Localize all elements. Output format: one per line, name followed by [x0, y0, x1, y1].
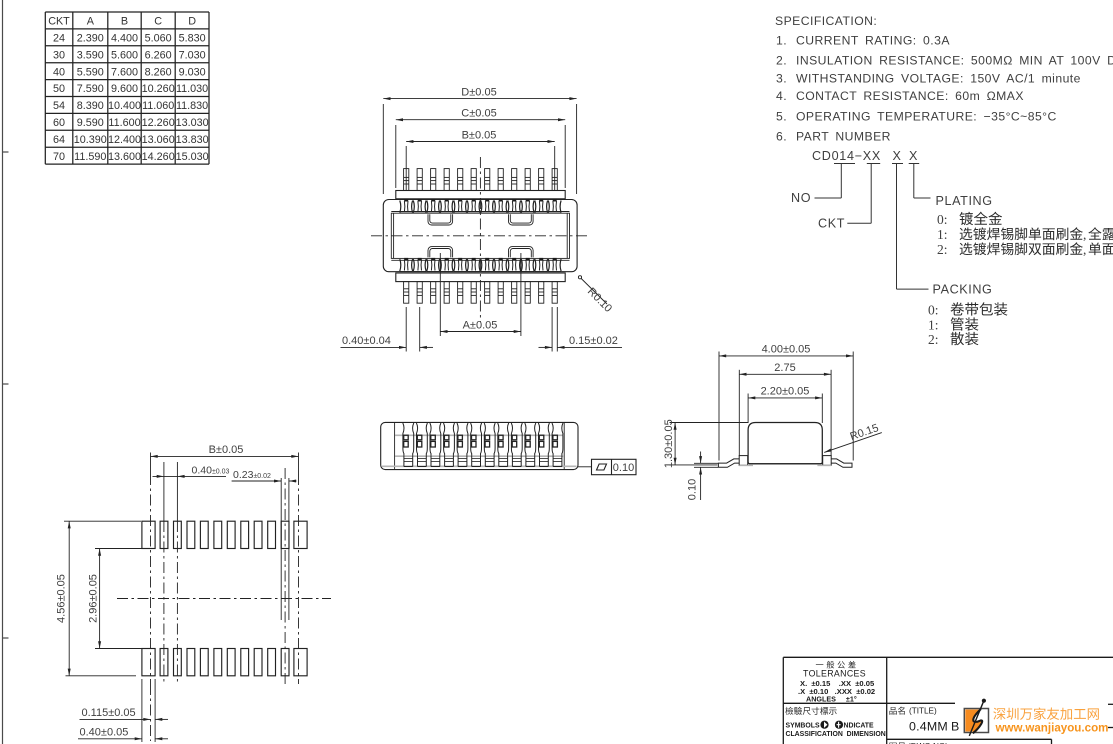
footprint: horizontal centerline: [117, 598, 331, 600]
svg-text:PART NUMBER: PART NUMBER: [796, 129, 891, 143]
svg-text:0:: 0:: [937, 212, 948, 227]
svg-text:12.260: 12.260: [142, 117, 175, 129]
footprint: dimension 0.40±0.03: [153, 475, 227, 477]
title block borders: [783, 657, 1113, 744]
svg-text:4.00±0.05: 4.00±0.05: [762, 344, 811, 356]
svg-text:6.260: 6.260: [145, 49, 172, 61]
svg-text:9.590: 9.590: [77, 117, 104, 129]
end view: left gull-wing lead: [718, 456, 747, 468]
end view: body cross-section: [748, 423, 822, 464]
part number CD014-XX X X: [812, 149, 918, 163]
svg-text:1.: 1.: [776, 33, 787, 47]
svg-text:2.75: 2.75: [774, 362, 795, 374]
logo orange shape: [965, 710, 982, 732]
svg-text:www.wanjiayou.com: www.wanjiayou.com: [995, 721, 1109, 734]
svg-text:0.115±0.05: 0.115±0.05: [82, 707, 136, 719]
svg-text:14.260: 14.260: [142, 151, 175, 163]
side view: flatness feature control frame 0.10: [578, 466, 592, 468]
footprint: dimension 0.115±0.05: [80, 679, 169, 742]
top view: top cap band: [396, 191, 565, 199]
circled symbols: [820, 721, 828, 729]
svg-text:5.590: 5.590: [77, 66, 104, 78]
svg-text:5.830: 5.830: [179, 33, 206, 45]
top view: dimension C±0.05: [396, 120, 565, 188]
top view: upper pin row (12 pins): [404, 169, 558, 191]
svg-text:2.20±0.05: 2.20±0.05: [761, 386, 810, 398]
svg-text:6.: 6.: [776, 129, 787, 143]
logo needle: [969, 701, 984, 736]
logo company name: [993, 707, 1099, 719]
svg-text:1.30±0.05: 1.30±0.05: [663, 419, 675, 468]
svg-text:PACKING: PACKING: [933, 282, 993, 296]
svg-text:0.15±0.02: 0.15±0.02: [569, 335, 618, 347]
svg-text:2.: 2.: [776, 54, 787, 68]
svg-text:13.060: 13.060: [142, 134, 175, 146]
end view: R0.15 leader: [824, 433, 882, 453]
svg-text:(TITLE): (TITLE): [909, 707, 937, 716]
top view: connector body outline: [383, 200, 577, 272]
footprint: bottom pad row: [142, 649, 307, 676]
svg-text:11.830: 11.830: [176, 100, 208, 112]
svg-text:11.030: 11.030: [176, 83, 208, 95]
svg-text:ANGLES ±1°: ANGLES ±1°: [806, 694, 857, 703]
svg-text:1:: 1:: [928, 318, 939, 333]
svg-text:5.060: 5.060: [145, 33, 172, 45]
svg-text:INSULATION RESISTANCE: 500MΩ M: INSULATION RESISTANCE: 500MΩ MIN AT 100V…: [796, 54, 1113, 68]
drawing frame left border: [3, 0, 9, 744]
part number callout tree: [815, 164, 931, 290]
logo S stroke: [973, 709, 982, 733]
end view: dimension 1.30±0.05: [670, 423, 749, 465]
svg-text:4.400: 4.400: [111, 33, 138, 45]
svg-text:R0.10: R0.10: [585, 286, 614, 315]
svg-text:PLATING: PLATING: [936, 194, 993, 208]
svg-text:50: 50: [53, 83, 65, 95]
svg-text:X: X: [893, 149, 902, 163]
labels NO / CKT / PLATING / PACKING: [791, 191, 993, 296]
top view: upper contact row: [400, 199, 561, 213]
svg-text:9.600: 9.600: [111, 83, 138, 95]
svg-text:13.600: 13.600: [108, 151, 141, 163]
svg-text:TOLERANCES: TOLERANCES: [803, 669, 866, 679]
top view: R0.10 leader: [578, 276, 581, 279]
svg-text:1:: 1:: [937, 227, 948, 242]
logo square: [964, 709, 988, 733]
svg-text:54: 54: [53, 100, 65, 112]
svg-text:3.: 3.: [776, 72, 787, 86]
top view: dimension A±0.05: [440, 253, 521, 336]
top view: keying slots: [428, 214, 533, 257]
footprint: dimension 0.23±0.02: [232, 478, 297, 620]
svg-text:5.600: 5.600: [111, 49, 138, 61]
svg-text:11.600: 11.600: [108, 117, 140, 129]
svg-text:0.40±0.04: 0.40±0.04: [342, 335, 391, 347]
top view: dimension D±0.05: [383, 99, 576, 194]
svg-text:0.4MM: 0.4MM: [909, 720, 948, 734]
svg-text:24: 24: [53, 33, 65, 45]
svg-text:0.10: 0.10: [613, 462, 634, 474]
svg-text:SPECIFICATION:: SPECIFICATION:: [775, 14, 877, 28]
product name row: [889, 707, 904, 715]
svg-text:8.260: 8.260: [145, 66, 172, 78]
svg-text:2.390: 2.390: [77, 33, 104, 45]
svg-text:3.590: 3.590: [77, 49, 104, 61]
footprint: dimension B±0.05: [151, 455, 299, 457]
side view: 12 terminal units: [403, 423, 563, 467]
svg-text:WITHSTANDING VOLTAGE: 150V AC/: WITHSTANDING VOLTAGE: 150V AC/1 minute: [796, 72, 1081, 86]
footprint: vertical centerlines: [151, 453, 299, 742]
footprint: dimension 4.56±0.05: [64, 521, 141, 676]
end view: dimension 4.00±0.05: [719, 352, 853, 461]
svg-text:0.40±0.05: 0.40±0.05: [80, 727, 129, 739]
footprint: top pad row: [142, 521, 307, 548]
svg-text:4.: 4.: [776, 89, 787, 103]
svg-text:11.060: 11.060: [142, 100, 174, 112]
svg-text:64: 64: [53, 134, 65, 146]
svg-text:9.030: 9.030: [179, 66, 206, 78]
svg-text:CD014−XX: CD014−XX: [812, 149, 881, 163]
svg-text:B: B: [121, 16, 128, 28]
svg-text:8.390: 8.390: [77, 100, 104, 112]
svg-text:0:: 0:: [928, 303, 939, 318]
specification heading and items: [775, 14, 1113, 143]
svg-text:B: B: [951, 720, 959, 734]
svg-text:CLASSIFICATION DIMENSION: CLASSIFICATION DIMENSION: [786, 731, 886, 738]
svg-text:A: A: [87, 16, 95, 28]
top view: dimension 0.15±0.02: [539, 307, 623, 352]
top view: lower pin row (12 pins): [404, 282, 558, 304]
svg-text:C: C: [154, 16, 162, 28]
svg-text:2.96±0.05: 2.96±0.05: [87, 574, 99, 623]
svg-text:2:: 2:: [937, 242, 948, 257]
svg-text:10.260: 10.260: [142, 83, 175, 95]
svg-text:7.030: 7.030: [179, 49, 206, 61]
svg-text:,: ,: [1083, 242, 1086, 257]
svg-text:7.590: 7.590: [77, 83, 104, 95]
tolerances text: [816, 661, 856, 669]
CKT dimension table: [45, 12, 209, 164]
svg-text:SYMBOLS: SYMBOLS: [786, 723, 820, 730]
top view: horizontal centerline: [371, 235, 589, 237]
svg-text:13.830: 13.830: [176, 134, 209, 146]
svg-text:C±0.05: C±0.05: [461, 108, 496, 120]
svg-text:0.23±0.02: 0.23±0.02: [233, 469, 271, 481]
top view: dimension 0.40±0.04: [341, 307, 434, 352]
inspection symbols text: [785, 707, 836, 715]
svg-text:NDICATE: NDICATE: [844, 723, 875, 730]
svg-text:B±0.05: B±0.05: [462, 129, 497, 141]
svg-text:B±0.05: B±0.05: [209, 444, 244, 456]
end view: dimension 2.75: [739, 370, 831, 456]
svg-text:0.40±0.03: 0.40±0.03: [192, 465, 230, 477]
top view: dimension B±0.05: [406, 142, 555, 238]
svg-text:0.10: 0.10: [687, 479, 699, 500]
end view: dimension 2.20±0.05: [748, 394, 822, 424]
svg-text:70: 70: [53, 151, 65, 163]
svg-text:10.400: 10.400: [108, 100, 141, 112]
svg-text:OPERATING TEMPERATURE: −35°C~8: OPERATING TEMPERATURE: −35°C~85°C: [796, 109, 1057, 123]
svg-text:15.030: 15.030: [176, 151, 209, 163]
end view: dimension 0.10 lead thickness: [694, 452, 718, 501]
svg-text:CURRENT RATING: 0.3A: CURRENT RATING: 0.3A: [796, 33, 950, 47]
footprint: dimension 0.40±0.05: [78, 738, 168, 740]
svg-text:A±0.05: A±0.05: [463, 319, 498, 331]
svg-text:2:: 2:: [928, 332, 939, 347]
top view: vertical centerline: [479, 157, 481, 322]
footprint: dimension 2.96±0.05: [95, 549, 142, 649]
svg-text:7.600: 7.600: [111, 66, 138, 78]
svg-text:X: X: [909, 149, 918, 163]
top view: inner cavity: [391, 212, 569, 261]
drawing number row (clipped): [889, 743, 905, 744]
top view: bottom cap band: [396, 273, 565, 282]
side view: gray shading bands: [382, 435, 577, 466]
svg-text:CONTACT RESISTANCE: 60m ΩMAX: CONTACT RESISTANCE: 60m ΩMAX: [796, 89, 1024, 103]
svg-text:13.030: 13.030: [176, 117, 209, 129]
svg-text:CKT: CKT: [818, 217, 845, 231]
side view: connector body outline: [381, 422, 578, 469]
svg-text:10.390: 10.390: [74, 134, 107, 146]
svg-text:12.400: 12.400: [108, 134, 141, 146]
svg-text:NO: NO: [791, 191, 811, 205]
svg-text:CKT: CKT: [48, 16, 70, 28]
svg-text:40: 40: [53, 66, 65, 78]
svg-text:5.: 5.: [776, 109, 787, 123]
svg-text:,: ,: [1083, 227, 1086, 242]
svg-text:D±0.05: D±0.05: [461, 87, 496, 99]
svg-text:4.56±0.05: 4.56±0.05: [56, 574, 68, 623]
svg-text:30: 30: [53, 49, 65, 61]
svg-text:D: D: [188, 16, 196, 28]
top view: lower contact row: [400, 258, 561, 272]
svg-text:60: 60: [53, 117, 65, 129]
end view: right gull-wing lead: [823, 456, 852, 468]
svg-text:11.590: 11.590: [74, 151, 106, 163]
